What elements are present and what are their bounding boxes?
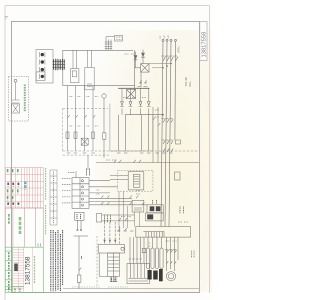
svg-text:13817558: 13817558 (24, 256, 31, 285)
svg-text:M3~: M3~ (188, 80, 192, 86)
svg-text:13817558: 13817558 (201, 32, 207, 58)
svg-text:(PE): (PE) (177, 46, 181, 52)
